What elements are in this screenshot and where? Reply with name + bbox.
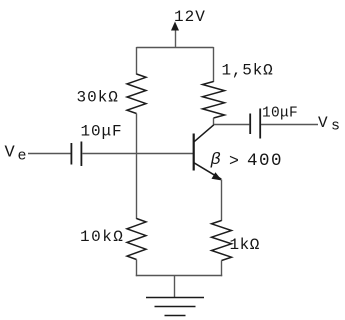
svg-text:12V: 12V — [174, 8, 206, 26]
svg-text:V: V — [5, 144, 16, 163]
wire base (through divider node) — [82, 153, 193, 155]
wire emitter vertical — [221, 180, 223, 222]
transistor Q1 emitter arrowhead — [212, 172, 223, 180]
wire 12V supply lead — [175, 28, 177, 48]
svg-text:1kΩ: 1kΩ — [230, 236, 260, 254]
transistor Q1 base bar — [193, 134, 195, 171]
svg-text:10μF: 10μF — [262, 106, 298, 122]
svg-text:10μF: 10μF — [81, 123, 123, 141]
svg-text:V: V — [318, 114, 328, 132]
transistor Q1 emitter lead — [194, 163, 221, 179]
wire right branch upper — [213, 47, 215, 82]
wire left branch lower — [136, 260, 138, 277]
resistor RE 1kΩ — [212, 221, 232, 261]
wire ground stub — [174, 276, 176, 298]
wire left branch upper — [136, 47, 138, 75]
svg-text:s: s — [331, 118, 340, 135]
svg-text:e: e — [18, 148, 27, 165]
wire output to Vs — [261, 124, 318, 126]
wire emitter lower — [221, 261, 223, 277]
capacitor C1 10μF input — [70, 143, 72, 165]
resistor R2 10kΩ — [127, 219, 146, 260]
capacitor C2 10μF output — [249, 114, 251, 135]
resistor R1 30kΩ — [127, 74, 146, 114]
ground — [146, 298, 204, 316]
svg-text:β: β — [210, 151, 221, 170]
transistor Q1 collector lead — [194, 125, 214, 142]
wire collector node to output cap — [213, 118, 215, 125]
wire bottom rail — [136, 275, 222, 277]
resistor RC 1,5kΩ — [203, 82, 225, 119]
svg-text:>: > — [229, 152, 239, 171]
svg-text:1,5kΩ: 1,5kΩ — [222, 62, 274, 80]
wire left branch middle — [136, 114, 138, 220]
wire input from Ve — [28, 153, 71, 155]
svg-text:400: 400 — [247, 151, 283, 171]
wire top rail — [137, 47, 214, 49]
svg-text:30kΩ: 30kΩ — [77, 89, 119, 107]
12V supply arrowhead — [171, 22, 179, 31]
svg-text:10kΩ: 10kΩ — [80, 228, 124, 246]
